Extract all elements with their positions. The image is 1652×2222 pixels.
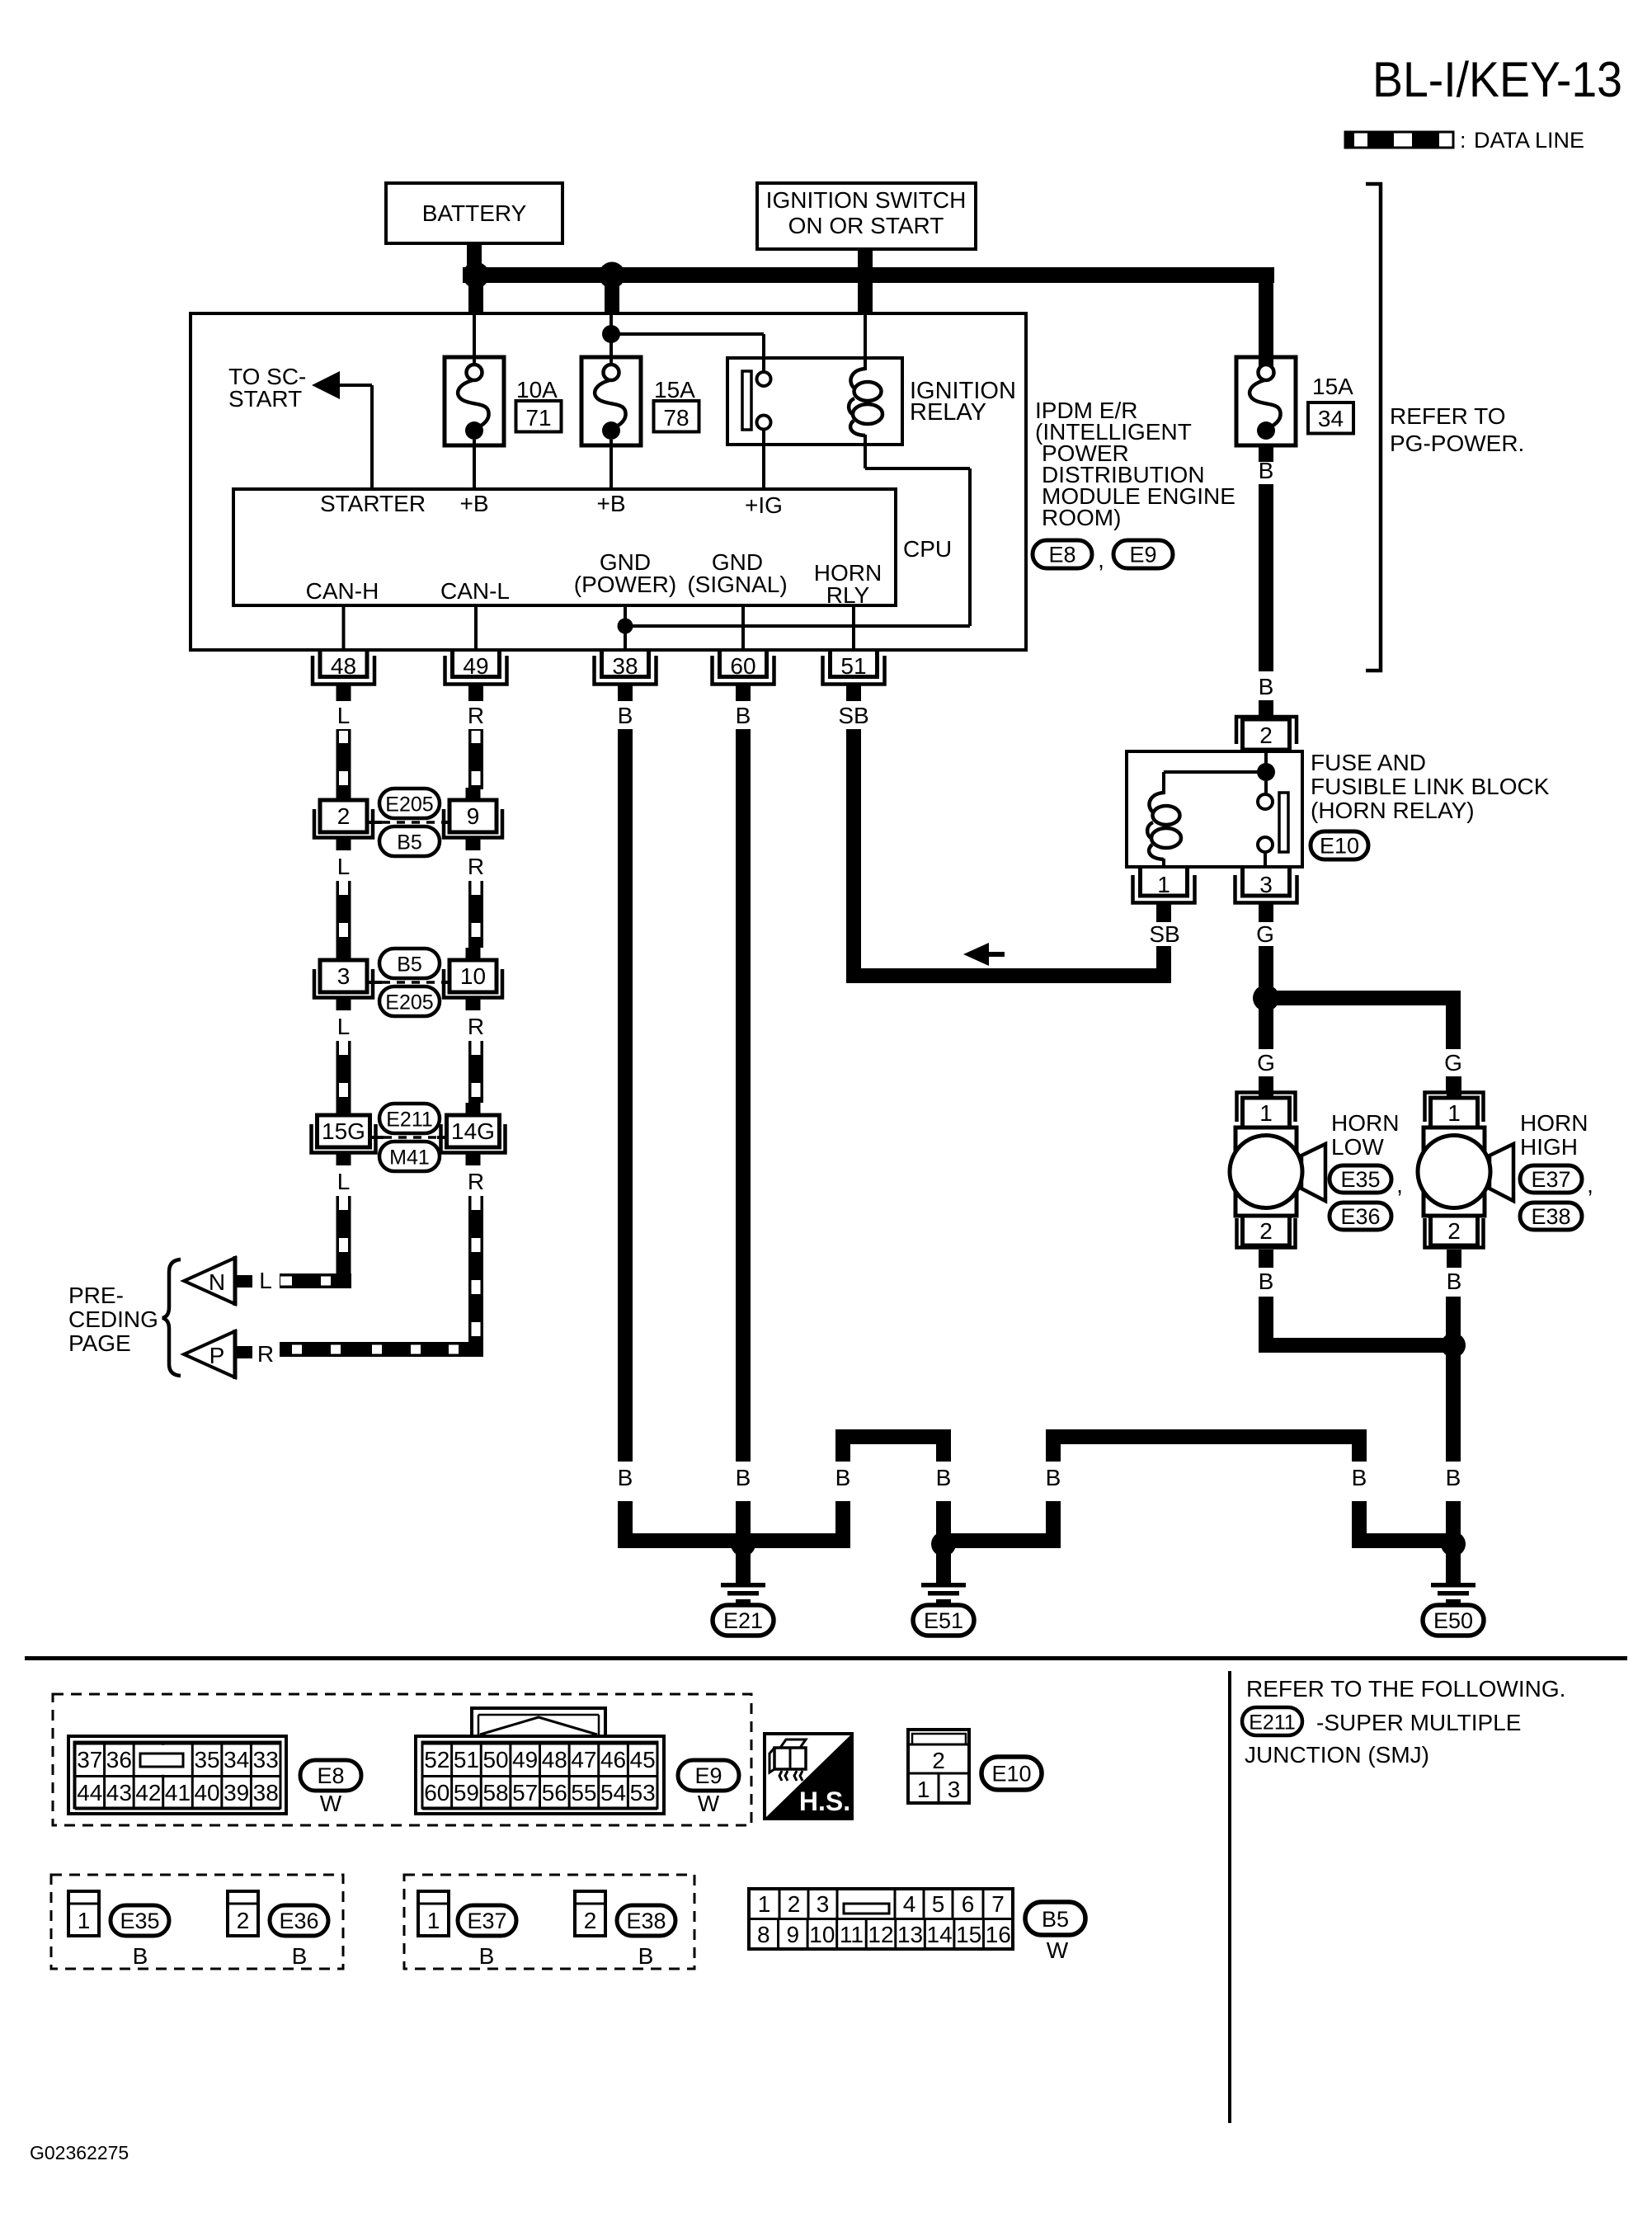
- label HORN LOW: [1331, 1110, 1399, 1160]
- dashed connector link row2: [368, 981, 450, 984]
- wire G horn low stub: [1259, 1076, 1273, 1093]
- svg-text:3: 3: [948, 1777, 961, 1802]
- node horn B junction: [1441, 1333, 1466, 1358]
- svg-text:HORN: HORN: [1520, 1110, 1588, 1136]
- wire CAN-H L to preceding page: [337, 1196, 351, 1287]
- node battery junction: [463, 262, 489, 289]
- svg-text:60: 60: [730, 653, 755, 679]
- dashed connector link row1: [368, 821, 450, 824]
- svg-text:2: 2: [1447, 1218, 1461, 1244]
- svg-text:B: B: [936, 1465, 952, 1490]
- svg-text:49: 49: [512, 1747, 538, 1772]
- svg-text:L: L: [337, 1169, 351, 1194]
- svg-text:R: R: [468, 703, 484, 728]
- svg-text:45: 45: [630, 1747, 656, 1772]
- arrow to SC-START: [312, 371, 340, 399]
- svg-text:44: 44: [77, 1780, 102, 1805]
- svg-text:13: 13: [897, 1922, 923, 1947]
- svg-text:CEDING: CEDING: [68, 1306, 158, 1332]
- svg-text:15: 15: [956, 1922, 981, 1947]
- CPU box: [233, 489, 952, 605]
- svg-text:L: L: [337, 703, 351, 728]
- svg-text:46: 46: [600, 1747, 626, 1772]
- svg-text:PRE-: PRE-: [68, 1283, 124, 1308]
- svg-text:10: 10: [460, 963, 486, 989]
- svg-text:E38: E38: [1531, 1204, 1570, 1229]
- wire SB horn relay: [846, 729, 861, 983]
- wire G pin3 down: [1259, 946, 1273, 992]
- svg-text:B: B: [736, 703, 751, 728]
- wire B bus segment 1: [743, 1533, 850, 1548]
- svg-text:G: G: [1257, 1050, 1275, 1076]
- svg-text:49: 49: [463, 653, 488, 679]
- pin 38 GND power: [595, 649, 657, 701]
- svg-text:,: ,: [1396, 1172, 1403, 1198]
- svg-text:R: R: [257, 1341, 274, 1367]
- wire GND power inside IPDM: [624, 605, 627, 649]
- svg-text:E205: E205: [385, 793, 433, 817]
- svg-text:7: 7: [991, 1891, 1005, 1917]
- wire B horn high: [1446, 1297, 1461, 1462]
- svg-text:37: 37: [77, 1747, 102, 1772]
- svg-text:CPU: CPU: [903, 536, 952, 562]
- wire stub P: [237, 1346, 252, 1358]
- connector E36 ref: [1330, 1203, 1391, 1230]
- node ignition relay coil feed: [602, 325, 620, 343]
- fuse 15A 78: [581, 314, 641, 489]
- dashed connector link row3: [371, 1136, 445, 1139]
- svg-text:E38: E38: [626, 1909, 666, 1933]
- svg-text:W: W: [698, 1791, 720, 1816]
- svg-text:11: 11: [840, 1922, 864, 1947]
- label REFER TO PG-POWER: [1390, 403, 1524, 456]
- wire CAN-H L segment 3: [337, 1041, 351, 1103]
- svg-text:56: 56: [542, 1780, 567, 1805]
- wire ignition switch stub: [858, 247, 873, 313]
- svg-text:2: 2: [337, 803, 351, 829]
- svg-text:B: B: [618, 1465, 633, 1490]
- svg-text:ON OR START: ON OR START: [788, 213, 944, 238]
- svg-text:E8: E8: [1048, 543, 1075, 567]
- svg-text:(POWER): (POWER): [574, 572, 676, 597]
- svg-text:15A: 15A: [654, 377, 695, 403]
- svg-text:39: 39: [224, 1780, 249, 1805]
- connector 9 E205/B5: [444, 788, 502, 850]
- wire relay contact to +IG: [762, 429, 765, 489]
- label HORN RLY: [814, 560, 882, 608]
- footer dashed box row2 right: [404, 1875, 694, 1969]
- ground E50: [1431, 1548, 1476, 1604]
- footer column divider: [1228, 1671, 1231, 2123]
- svg-text:R: R: [468, 854, 484, 879]
- svg-text:1: 1: [758, 1891, 771, 1917]
- connector E205 ref row1: [379, 789, 440, 818]
- wire B pin60 down: [736, 729, 751, 1462]
- svg-text:B: B: [1259, 458, 1274, 483]
- svg-text:B: B: [638, 1943, 654, 1969]
- svg-text:5: 5: [932, 1891, 945, 1917]
- svg-text:34: 34: [224, 1747, 249, 1772]
- svg-text:59: 59: [454, 1780, 479, 1805]
- svg-text:P: P: [209, 1343, 225, 1368]
- svg-text:2: 2: [1259, 1218, 1273, 1244]
- svg-text:43: 43: [106, 1780, 132, 1805]
- connector E10 footer ref: [981, 1757, 1042, 1790]
- svg-text:E36: E36: [279, 1909, 318, 1933]
- wire relay coil to gnd trace: [865, 468, 970, 626]
- ground E51: [921, 1548, 966, 1604]
- wire gnd power branch: [625, 624, 970, 628]
- wire B bridge 1: [835, 1429, 951, 1444]
- svg-text:40: 40: [194, 1780, 219, 1805]
- connector E51 ref: [913, 1605, 974, 1636]
- svg-text:START: START: [228, 386, 302, 412]
- connector E38 footer ref: [617, 1905, 675, 1936]
- svg-text:14: 14: [927, 1922, 953, 1947]
- wire HORN RLY inside IPDM: [852, 605, 855, 649]
- svg-text:+B: +B: [596, 491, 625, 516]
- svg-text:10A: 10A: [516, 377, 558, 403]
- svg-text:E205: E205: [385, 991, 433, 1014]
- svg-text:W: W: [1047, 1937, 1069, 1963]
- footer separator line: [25, 1656, 1627, 1660]
- svg-text:48: 48: [331, 653, 356, 679]
- wire CAN-L R to preceding page: [468, 1196, 483, 1355]
- svg-text:DATA LINE: DATA LINE: [1474, 128, 1584, 153]
- connector E38 ref: [1520, 1203, 1582, 1230]
- svg-text:R: R: [468, 1014, 484, 1039]
- svg-text:E10: E10: [991, 1762, 1031, 1787]
- wire stub into E10 pin 2: [1259, 700, 1273, 721]
- svg-text:3: 3: [1259, 872, 1273, 897]
- svg-text:B: B: [1046, 1465, 1061, 1490]
- wire B bridge 2: [1046, 1429, 1367, 1444]
- svg-text:B: B: [1259, 1269, 1274, 1294]
- connector B5 ref row2: [379, 949, 440, 978]
- svg-text:CAN-L: CAN-L: [440, 578, 510, 604]
- svg-text:RELAY: RELAY: [910, 399, 986, 426]
- ignition relay coil: [849, 313, 882, 468]
- svg-text:9: 9: [787, 1922, 800, 1947]
- footer dashed box row2 left: [51, 1875, 343, 1969]
- svg-text:E9: E9: [694, 1763, 722, 1788]
- fuse and fusible link block E10 box: [1127, 751, 1302, 867]
- svg-text:3: 3: [817, 1891, 830, 1917]
- svg-text:CAN-H: CAN-H: [306, 578, 379, 604]
- svg-text:36: 36: [106, 1747, 132, 1772]
- svg-text:38: 38: [612, 653, 638, 679]
- wire stub below battery junction: [468, 283, 483, 314]
- wire pin2 to junction: [1264, 751, 1268, 765]
- svg-text:B5: B5: [397, 831, 422, 854]
- svg-text:33: 33: [253, 1747, 279, 1772]
- svg-text:,: ,: [1587, 1172, 1593, 1198]
- svg-text::: :: [1460, 128, 1466, 153]
- svg-text:1: 1: [917, 1777, 930, 1802]
- svg-text:B: B: [1446, 1465, 1461, 1490]
- connector E37 footer ref: [458, 1905, 516, 1936]
- wire GND signal inside IPDM: [741, 605, 745, 649]
- connector E9 pin grid: [416, 1708, 664, 1814]
- connector E9 ref: [1113, 540, 1173, 568]
- fuse 10A 71: [445, 314, 504, 489]
- connector E35 footer ref: [111, 1905, 169, 1936]
- svg-text:(SIGNAL): (SIGNAL): [687, 572, 787, 597]
- svg-text:2: 2: [932, 1748, 945, 1773]
- ignition switch box: [757, 183, 976, 249]
- svg-text:ROOM): ROOM): [1042, 505, 1121, 530]
- svg-text:58: 58: [482, 1780, 508, 1805]
- wire B to horn relay: [1259, 484, 1273, 671]
- svg-text:3: 3: [337, 963, 351, 989]
- wire B bus segment 2: [936, 1444, 951, 1462]
- connector B5 pin grid: [749, 1889, 1013, 1949]
- svg-text:1: 1: [427, 1908, 440, 1933]
- label HORN HIGH: [1520, 1110, 1588, 1160]
- svg-text:E50: E50: [1433, 1608, 1473, 1633]
- pin 3 E10: [1235, 869, 1297, 922]
- svg-text:B: B: [1259, 674, 1274, 699]
- bus bar wire: [463, 267, 1274, 283]
- horn high: [1418, 1076, 1513, 1268]
- svg-text:E35: E35: [120, 1909, 159, 1933]
- off-page triangle P: [184, 1330, 235, 1379]
- node ground junction E21: [731, 1532, 755, 1556]
- svg-text:55: 55: [571, 1780, 596, 1805]
- connector 15G E211/M41: [312, 1103, 376, 1165]
- svg-text:L: L: [259, 1268, 272, 1293]
- svg-text:E37: E37: [467, 1909, 506, 1933]
- svg-text:2: 2: [584, 1908, 597, 1933]
- svg-text:1: 1: [1259, 1100, 1273, 1126]
- ignition relay U1: [727, 358, 902, 445]
- svg-text:,: ,: [1098, 547, 1104, 572]
- svg-text:IGNITION SWITCH: IGNITION SWITCH: [766, 187, 967, 213]
- connector E8 ref: [1033, 540, 1092, 568]
- pin 2 E38 footer: [575, 1891, 605, 1936]
- svg-text:B5: B5: [397, 953, 422, 977]
- horn relay coil: [1147, 772, 1266, 869]
- connector E36 footer ref: [270, 1905, 328, 1936]
- svg-text:E35: E35: [1340, 1167, 1380, 1192]
- svg-text:FUSE AND: FUSE AND: [1311, 750, 1426, 775]
- svg-text:BATTERY: BATTERY: [422, 200, 527, 226]
- svg-text:34: 34: [1318, 406, 1344, 431]
- svg-text:B: B: [835, 1465, 851, 1490]
- wire CAN-H L segment 1: [337, 729, 351, 789]
- svg-text:SB: SB: [838, 703, 868, 728]
- connector B5 ref row1: [379, 826, 440, 856]
- svg-text:E211: E211: [1249, 1711, 1296, 1735]
- svg-text:48: 48: [542, 1747, 567, 1772]
- connector E50 ref: [1423, 1605, 1484, 1636]
- node ground junction E50: [1441, 1532, 1466, 1556]
- svg-text:E9: E9: [1129, 543, 1156, 567]
- connector E10 footer grid: [908, 1730, 969, 1803]
- svg-text:PAGE: PAGE: [68, 1330, 131, 1356]
- wire B horn low: [1259, 1297, 1273, 1353]
- wire CAN-H L segment 2: [337, 881, 351, 948]
- svg-text:HORN: HORN: [1331, 1110, 1399, 1136]
- svg-text:REFER TO THE FOLLOWING.: REFER TO THE FOLLOWING.: [1246, 1676, 1565, 1702]
- svg-text:B: B: [479, 1943, 495, 1969]
- svg-text:+B: +B: [459, 491, 488, 516]
- svg-text:4: 4: [903, 1891, 916, 1917]
- wire B bus segment 4: [1352, 1444, 1367, 1462]
- connector E211 ref footer: [1242, 1707, 1302, 1735]
- wire bus to 15A fuse 34: [1259, 267, 1273, 366]
- svg-text:STARTER: STARTER: [320, 491, 426, 516]
- node GND power junction: [618, 619, 633, 634]
- pin 2 E10: [1236, 717, 1297, 750]
- svg-text:51: 51: [840, 653, 866, 679]
- svg-text:71: 71: [525, 405, 551, 431]
- wire CAN-L R segment 1: [468, 729, 483, 789]
- label TO SC-START: [228, 364, 306, 412]
- svg-text:B: B: [1352, 1465, 1367, 1490]
- svg-text:E21: E21: [723, 1608, 763, 1633]
- wire CAN-H inside IPDM: [342, 605, 346, 649]
- wire B pin38 down: [618, 729, 633, 1462]
- H.S. view icon: [765, 1734, 852, 1819]
- svg-text:1: 1: [1157, 872, 1170, 897]
- svg-text:RLY: RLY: [826, 582, 870, 608]
- label IGNITION RELAY: [910, 378, 1016, 426]
- connector E8 pin grid: [68, 1736, 286, 1814]
- connector E21 ref: [713, 1605, 774, 1636]
- svg-text:12: 12: [868, 1922, 893, 1947]
- arrow on SB wire: [963, 943, 1005, 966]
- svg-text:50: 50: [482, 1747, 508, 1772]
- connector E205 ref row2: [379, 986, 440, 1016]
- pin 49 CAN-L: [445, 649, 507, 701]
- svg-text:2: 2: [237, 1908, 250, 1933]
- svg-text:(HORN RELAY): (HORN RELAY): [1311, 798, 1475, 823]
- wire 15A fuse stub: [1259, 445, 1273, 462]
- svg-text:W: W: [320, 1791, 342, 1816]
- pin 1 E37 footer: [418, 1891, 449, 1936]
- label 15A fuse 34: [1308, 374, 1353, 434]
- svg-text:G: G: [1444, 1050, 1462, 1076]
- svg-text:PG-POWER.: PG-POWER.: [1390, 431, 1524, 456]
- connector M41 ref row3: [379, 1142, 440, 1171]
- connector E37 ref: [1520, 1165, 1582, 1193]
- wire battery stub: [467, 242, 482, 269]
- connector E9 footer ref: [678, 1760, 739, 1816]
- svg-text:B5: B5: [1042, 1907, 1069, 1932]
- svg-text:14G: 14G: [451, 1118, 495, 1144]
- label SUPER MULTIPLE JUNCTION: [1245, 1710, 1521, 1768]
- brace preceding page: [162, 1259, 181, 1376]
- svg-text:2: 2: [788, 1891, 801, 1917]
- svg-text:LOW: LOW: [1331, 1134, 1384, 1160]
- svg-text:E37: E37: [1531, 1167, 1570, 1192]
- svg-text:60: 60: [424, 1780, 449, 1805]
- svg-text:E211: E211: [386, 1109, 433, 1132]
- svg-text:M41: M41: [389, 1146, 430, 1170]
- connector 3 B5/E205: [314, 948, 373, 1010]
- connector E10 ref: [1311, 831, 1368, 859]
- label 10A fuse 71: [516, 377, 562, 432]
- IPDM E/R box: [191, 313, 1026, 650]
- bracket refer to PG-POWER: [1366, 184, 1381, 671]
- wire junction to relay contact: [611, 334, 764, 372]
- wire stub below fuse-2 junction: [605, 283, 619, 314]
- connector 10 B5/E205: [444, 948, 502, 1010]
- node ground junction E51: [931, 1532, 956, 1556]
- wire G branch to horn high: [1266, 991, 1461, 1005]
- svg-text:R: R: [468, 1169, 484, 1194]
- svg-text:N: N: [209, 1269, 225, 1295]
- pin 1 E10: [1133, 869, 1195, 922]
- svg-text:38: 38: [253, 1780, 279, 1805]
- wire CAN-L R segment 3: [468, 1041, 483, 1103]
- svg-text:E51: E51: [924, 1608, 963, 1633]
- label 15A fuse 78: [654, 377, 699, 432]
- svg-text:1: 1: [78, 1908, 91, 1933]
- svg-text:54: 54: [600, 1780, 626, 1805]
- svg-text:E8: E8: [317, 1763, 344, 1788]
- wire CAN-L inside IPDM: [474, 605, 478, 649]
- svg-text:6: 6: [962, 1891, 975, 1917]
- horn low: [1230, 1076, 1325, 1268]
- svg-text:78: 78: [663, 405, 689, 431]
- svg-text:35: 35: [194, 1747, 219, 1772]
- svg-text:REFER TO: REFER TO: [1390, 403, 1506, 429]
- wire G horn high stub: [1446, 1076, 1461, 1093]
- svg-text:1: 1: [1447, 1100, 1461, 1126]
- node horn relay junction: [1257, 763, 1275, 781]
- svg-text:B: B: [292, 1943, 308, 1969]
- svg-text:L: L: [337, 1014, 351, 1039]
- wire G to horn low: [1259, 1005, 1273, 1049]
- svg-text:15A: 15A: [1312, 374, 1353, 399]
- label IPDM E/R text: [1035, 398, 1235, 530]
- svg-text:53: 53: [630, 1780, 656, 1805]
- svg-text:G02362275: G02362275: [30, 2142, 129, 2163]
- wire starter pin: [340, 385, 372, 489]
- svg-text:B: B: [1447, 1269, 1462, 1294]
- fuse 15A 34: [1236, 357, 1296, 445]
- svg-text:FUSIBLE LINK BLOCK: FUSIBLE LINK BLOCK: [1311, 774, 1550, 799]
- svg-text:L: L: [337, 854, 351, 879]
- svg-text:HIGH: HIGH: [1520, 1134, 1578, 1160]
- node fuse-2 feed junction: [599, 262, 625, 289]
- svg-text:SB: SB: [1149, 921, 1179, 947]
- wire B bus segment 3: [936, 1533, 1061, 1548]
- svg-text:E36: E36: [1340, 1204, 1380, 1229]
- connector B5 footer ref: [1025, 1902, 1085, 1963]
- pin 60 GND signal: [713, 649, 774, 701]
- svg-text:B: B: [736, 1465, 751, 1490]
- svg-text:15G: 15G: [322, 1118, 365, 1144]
- connector E8 footer ref: [300, 1760, 361, 1816]
- svg-text:51: 51: [454, 1747, 479, 1772]
- svg-text:57: 57: [512, 1780, 538, 1805]
- svg-text:42: 42: [135, 1780, 161, 1805]
- svg-text:2: 2: [1259, 723, 1273, 748]
- svg-text:16: 16: [986, 1922, 1011, 1947]
- svg-text:47: 47: [571, 1747, 596, 1772]
- svg-text:B: B: [618, 703, 633, 728]
- svg-text:+IG: +IG: [745, 492, 783, 518]
- label GND SIGNAL: [687, 549, 787, 597]
- battery B+ box: [386, 183, 562, 243]
- svg-text:10: 10: [809, 1922, 835, 1947]
- ground E21: [721, 1548, 765, 1604]
- label PRECEDING PAGE: [68, 1283, 158, 1356]
- svg-text:BL-I/KEY-13: BL-I/KEY-13: [1372, 52, 1622, 107]
